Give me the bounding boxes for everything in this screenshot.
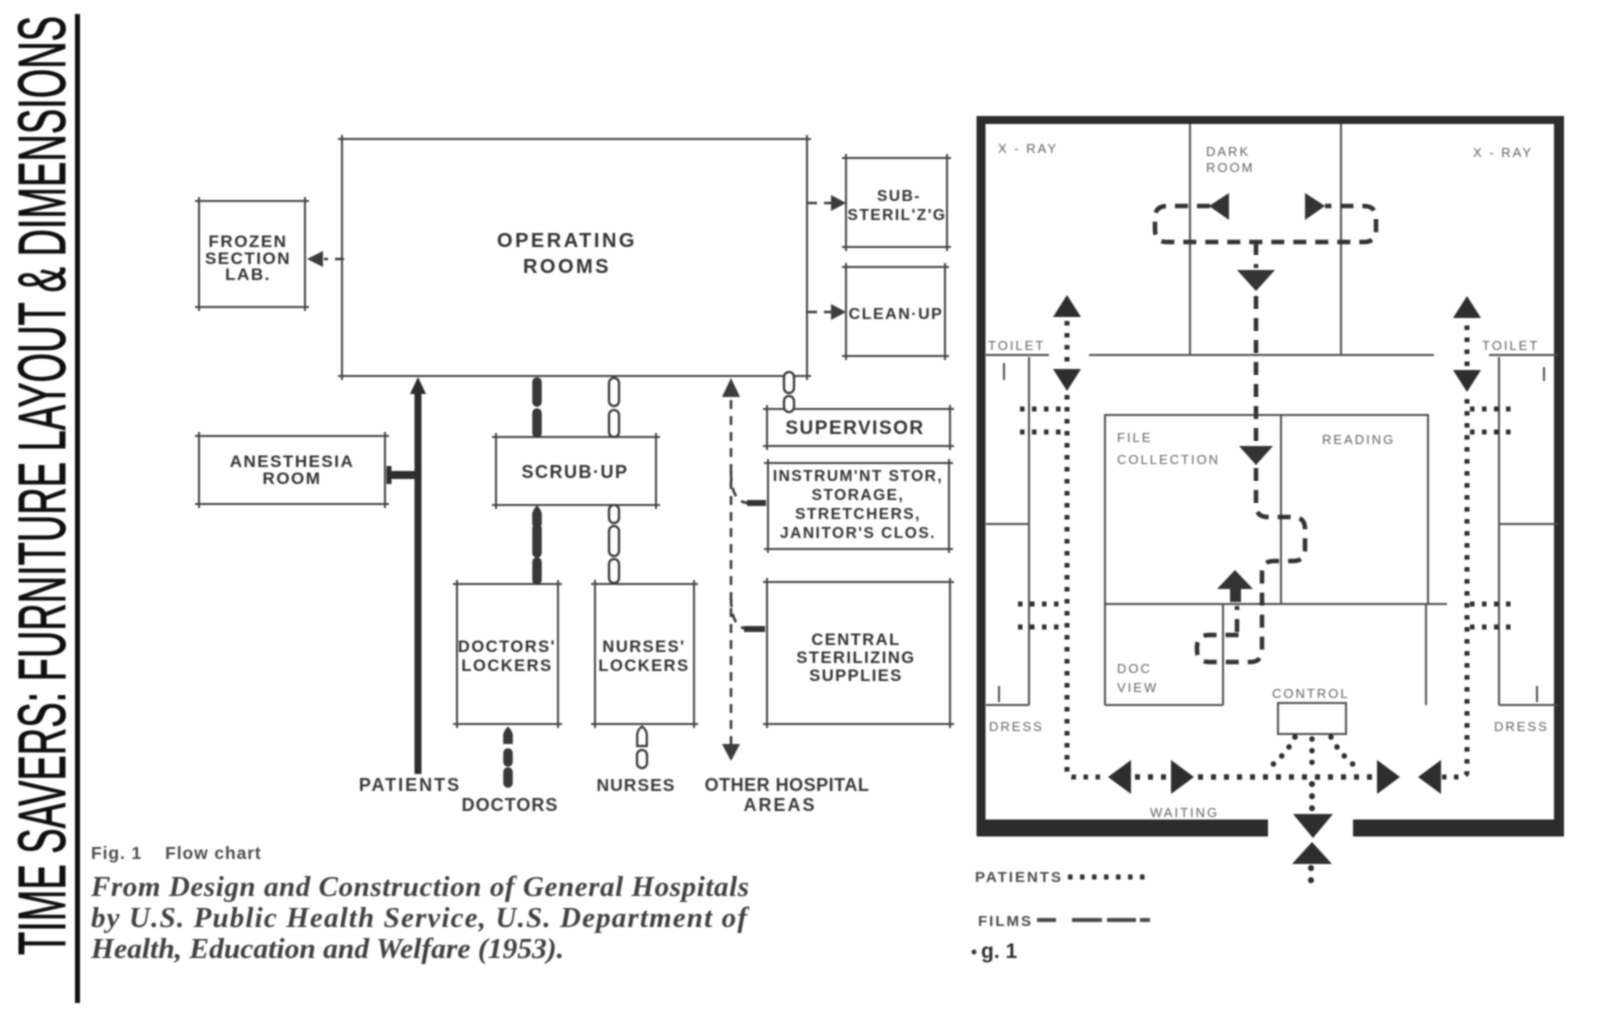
svg-text:ROOM: ROOM: [263, 469, 322, 488]
svg-text:CLEAN·UP: CLEAN·UP: [849, 306, 944, 323]
svg-text:NURSES': NURSES': [602, 638, 685, 656]
svg-text:PATIENTS: PATIENTS: [975, 869, 1063, 886]
svg-text:g. 1: g. 1: [981, 940, 1017, 963]
svg-text:STERIL'Z'G: STERIL'Z'G: [847, 207, 946, 224]
svg-text:by U.S. Public Health Service,: by U.S. Public Health Service, U.S. Depa…: [91, 902, 750, 934]
svg-text:DOCTORS: DOCTORS: [462, 795, 559, 815]
svg-text:TOILET: TOILET: [988, 338, 1045, 353]
svg-text:SUB-: SUB-: [877, 188, 921, 205]
svg-text:AREAS: AREAS: [743, 795, 816, 815]
svg-text:WAITING: WAITING: [1150, 805, 1219, 820]
svg-text:X - RAY: X - RAY: [1473, 145, 1533, 160]
svg-text:LOCKERS: LOCKERS: [598, 657, 689, 675]
svg-text:STRETCHERS,: STRETCHERS,: [795, 506, 921, 523]
svg-text:ROOMS: ROOMS: [523, 256, 611, 278]
svg-text:TOILET: TOILET: [1482, 338, 1539, 353]
svg-text:CONTROL: CONTROL: [1272, 686, 1350, 701]
svg-text:SUPPLIES: SUPPLIES: [809, 667, 903, 685]
svg-text:FILMS: FILMS: [978, 913, 1033, 930]
svg-text:DRESS: DRESS: [1494, 719, 1549, 734]
svg-text:Fig. 1 Flow chart: Fig. 1 Flow chart: [91, 843, 262, 863]
svg-text:DARK: DARK: [1206, 144, 1250, 159]
svg-text:From Design and Construction o: From Design and Construction of General …: [90, 871, 749, 903]
svg-text:READING: READING: [1322, 432, 1395, 447]
svg-text:NURSES: NURSES: [597, 775, 676, 795]
svg-text:LOCKERS: LOCKERS: [461, 657, 552, 675]
svg-text:TIME SAVERS: FURNITURE LAYOUT: TIME SAVERS: FURNITURE LAYOUT & DIMENSIO…: [5, 16, 80, 955]
svg-text:DRESS: DRESS: [989, 719, 1044, 734]
svg-text:OTHER HOSPITAL: OTHER HOSPITAL: [705, 775, 870, 795]
svg-text:OPERATING: OPERATING: [497, 230, 637, 252]
svg-text:SUPERVISOR: SUPERVISOR: [785, 418, 924, 439]
svg-text:DOC: DOC: [1117, 661, 1152, 676]
svg-text:JANITOR'S CLOS.: JANITOR'S CLOS.: [780, 525, 936, 542]
svg-text:COLLECTION: COLLECTION: [1117, 452, 1220, 467]
svg-text:SCRUB·UP: SCRUB·UP: [521, 462, 628, 482]
svg-text:VIEW: VIEW: [1117, 680, 1158, 695]
svg-text:LAB.: LAB.: [225, 265, 271, 284]
svg-text:X - RAY: X - RAY: [998, 141, 1058, 156]
svg-text:ROOM: ROOM: [1206, 160, 1254, 175]
svg-text:CENTRAL: CENTRAL: [811, 631, 900, 649]
svg-text:PATIENTS: PATIENTS: [359, 775, 461, 795]
svg-text:DOCTORS': DOCTORS': [458, 638, 556, 656]
svg-text:Health, Education and Welfare: Health, Education and Welfare (1953).: [90, 933, 564, 965]
svg-text:STERILIZING: STERILIZING: [796, 649, 915, 667]
svg-text:INSTRUM'NT STOR,: INSTRUM'NT STOR,: [773, 468, 943, 485]
svg-text:STORAGE,: STORAGE,: [812, 487, 905, 504]
svg-text:FILE: FILE: [1117, 430, 1152, 445]
